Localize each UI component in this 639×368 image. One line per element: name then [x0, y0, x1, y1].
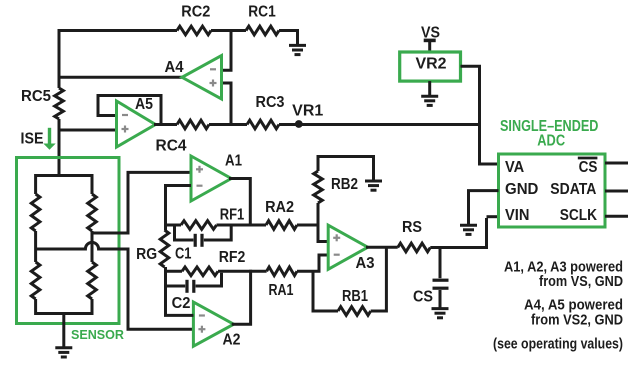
svg-text:RC2: RC2	[181, 3, 210, 20]
wire C2 right	[196, 273, 222, 286]
regulator VR2 box	[400, 52, 461, 81]
wire sensor right branch bottom	[91, 299, 94, 315]
resistor bridge left-bottom	[31, 262, 40, 299]
svg-text:RF2: RF2	[219, 249, 246, 266]
svg-text:VIN: VIN	[505, 207, 529, 224]
wire CS stub	[605, 162, 628, 165]
wire A2 - column	[166, 271, 194, 315]
resistor RG	[160, 230, 169, 267]
wire A4 + input down to RC4/RC3 junction	[222, 83, 232, 126]
op-amp A1	[191, 156, 231, 201]
svg-text:A4: A4	[165, 59, 184, 76]
svg-text:from VS2, GND: from VS2, GND	[531, 313, 623, 329]
resistor bridge left-top	[31, 194, 40, 231]
svg-text:GND: GND	[505, 181, 538, 198]
svg-text:RC5: RC5	[21, 88, 51, 105]
wire RS to VIN riser	[430, 218, 486, 248]
wire right tap to A1 +	[92, 172, 192, 233]
wire C1 left	[175, 225, 194, 240]
wire C2 left	[166, 285, 186, 288]
svg-text:RF1: RF1	[220, 207, 245, 224]
svg-text:RB2: RB2	[331, 176, 358, 193]
svg-text:RC1: RC1	[248, 3, 276, 20]
op-amp A2	[193, 302, 233, 346]
capacitor CS	[433, 280, 449, 288]
resistor RC2	[177, 26, 211, 35]
resistor bridge right-top	[88, 194, 97, 231]
wire RA2 to A3 +	[297, 225, 329, 242]
wire RB2 bottom	[317, 203, 320, 227]
ISE current arrow	[43, 128, 55, 150]
wire C1 right	[204, 225, 231, 240]
wire sensor left branch top	[34, 174, 37, 194]
svg-text:A1: A1	[225, 153, 242, 170]
svg-text:VR2: VR2	[416, 56, 447, 73]
svg-text:CS: CS	[579, 159, 598, 176]
svg-text:CS: CS	[413, 289, 433, 306]
wire A2 output up to RF2/RA1 junction	[232, 270, 251, 324]
wire sensor right branch top	[91, 174, 94, 194]
svg-text:SDATA: SDATA	[550, 181, 596, 198]
svg-text:RA1: RA1	[269, 282, 294, 299]
wire SCLK stub	[605, 215, 628, 218]
capacitor C2	[187, 280, 194, 293]
resistor RB2	[314, 171, 323, 203]
wire left tap hop to A2 +	[36, 242, 194, 329]
ground (RB2)	[365, 181, 382, 190]
wire A4 - input to RC2/RC1 junction	[222, 29, 232, 70]
resistor RA1	[267, 267, 297, 276]
svg-text:A4, A5 powered: A4, A5 powered	[524, 298, 623, 314]
svg-text:SCLK: SCLK	[560, 207, 598, 224]
wire A5 output to RC4	[154, 123, 177, 126]
svg-text:C1: C1	[175, 246, 192, 263]
svg-text:VR1: VR1	[292, 103, 323, 120]
wire sensor ground stem	[62, 314, 65, 348]
wire A1 - input down	[166, 186, 192, 227]
wire RA2 left	[250, 224, 266, 227]
wire RF2 right	[218, 270, 251, 273]
wire CS bottom	[439, 290, 442, 308]
wire RG column top	[164, 225, 167, 230]
wire VS stem	[428, 40, 431, 52]
resistor RC1	[246, 26, 279, 35]
svg-text:A3: A3	[356, 255, 375, 272]
wire RB1 left down	[313, 270, 338, 311]
sensor box	[17, 158, 120, 324]
svg-text:from VS, GND: from VS, GND	[539, 274, 623, 290]
svg-text:SENSOR: SENSOR	[71, 327, 124, 342]
wire A1 output down to RF1/RA2 junction	[229, 179, 250, 227]
svg-text:A5: A5	[135, 96, 153, 113]
wire RA1 left	[251, 270, 267, 273]
wire A4 output	[59, 76, 183, 79]
wire RC4 to junction to RC3	[209, 123, 247, 126]
op-amp A3	[328, 225, 368, 269]
wire RC1 to ground	[279, 31, 298, 45]
terminal VS bar	[424, 39, 436, 43]
wire sensor right branch mid	[91, 231, 94, 262]
op-amp A5	[117, 101, 156, 147]
resistor RC4	[177, 120, 209, 129]
wire VIN stub	[487, 215, 499, 218]
resistor RB1	[338, 307, 371, 316]
capacitor C1	[195, 234, 202, 247]
ground (CS)	[432, 309, 449, 318]
wire A3 output	[366, 246, 398, 249]
wire RF2 left	[164, 270, 182, 273]
op-amp A4	[182, 56, 222, 100]
wire RA1 to A3 -	[297, 255, 329, 271]
ground (ADC GND)	[460, 225, 477, 234]
svg-text:ADC: ADC	[537, 133, 565, 150]
wire sensor left branch bottom	[34, 299, 37, 315]
wire RC2 to RC1	[211, 29, 246, 32]
wire RF1 left	[164, 224, 181, 227]
resistor RC3	[247, 120, 279, 129]
resistor RA2	[266, 221, 297, 230]
wire sensor left branch mid	[34, 231, 37, 262]
wire RB2 top to ground	[318, 157, 374, 181]
svg-text:VA: VA	[505, 159, 525, 176]
ground (sensor)	[55, 348, 72, 357]
wire A5 + input	[59, 129, 117, 132]
svg-text:A2: A2	[223, 332, 241, 349]
resistor RS	[398, 243, 431, 252]
svg-text:RB1: RB1	[342, 288, 368, 305]
wire sensor bottom T	[36, 312, 92, 315]
svg-text:RA2: RA2	[265, 199, 294, 216]
resistor RC5	[55, 88, 64, 119]
wire VR2 output to VA	[461, 66, 499, 164]
wire RF1 right	[217, 224, 251, 227]
svg-text:(see operating values): (see operating values)	[493, 337, 623, 353]
wire left column to sensor	[58, 119, 61, 177]
svg-text:RC3: RC3	[256, 94, 285, 111]
wire RG column bottom	[164, 267, 167, 273]
overline on CS pin	[578, 157, 598, 160]
node VR1 junction dot	[295, 120, 303, 128]
svg-text:RG: RG	[136, 246, 157, 263]
ADC box	[499, 154, 606, 227]
wire VR2 ground stem	[428, 81, 431, 95]
resistor bridge right-bottom	[88, 262, 97, 299]
svg-text:RS: RS	[402, 219, 422, 236]
ground (VR2)	[421, 96, 438, 105]
svg-text:C2: C2	[172, 295, 191, 312]
svg-text:ISE: ISE	[21, 130, 44, 147]
wire A5 feedback loop	[98, 96, 161, 125]
wire top (left column to RC2)	[59, 29, 177, 32]
wire SDATA stub	[605, 190, 628, 193]
resistor RF1	[181, 221, 217, 230]
wire sensor top T	[36, 174, 92, 177]
wire RC3 to VR1 line	[279, 123, 480, 126]
resistor RF2	[182, 267, 218, 276]
wire left column upper	[58, 29, 61, 88]
ground (RC1)	[289, 45, 306, 54]
wire CS top	[439, 248, 442, 279]
wire GND pin to ground	[469, 191, 499, 224]
svg-text:RC4: RC4	[156, 138, 187, 155]
wire RB1 right up to output	[371, 247, 387, 311]
